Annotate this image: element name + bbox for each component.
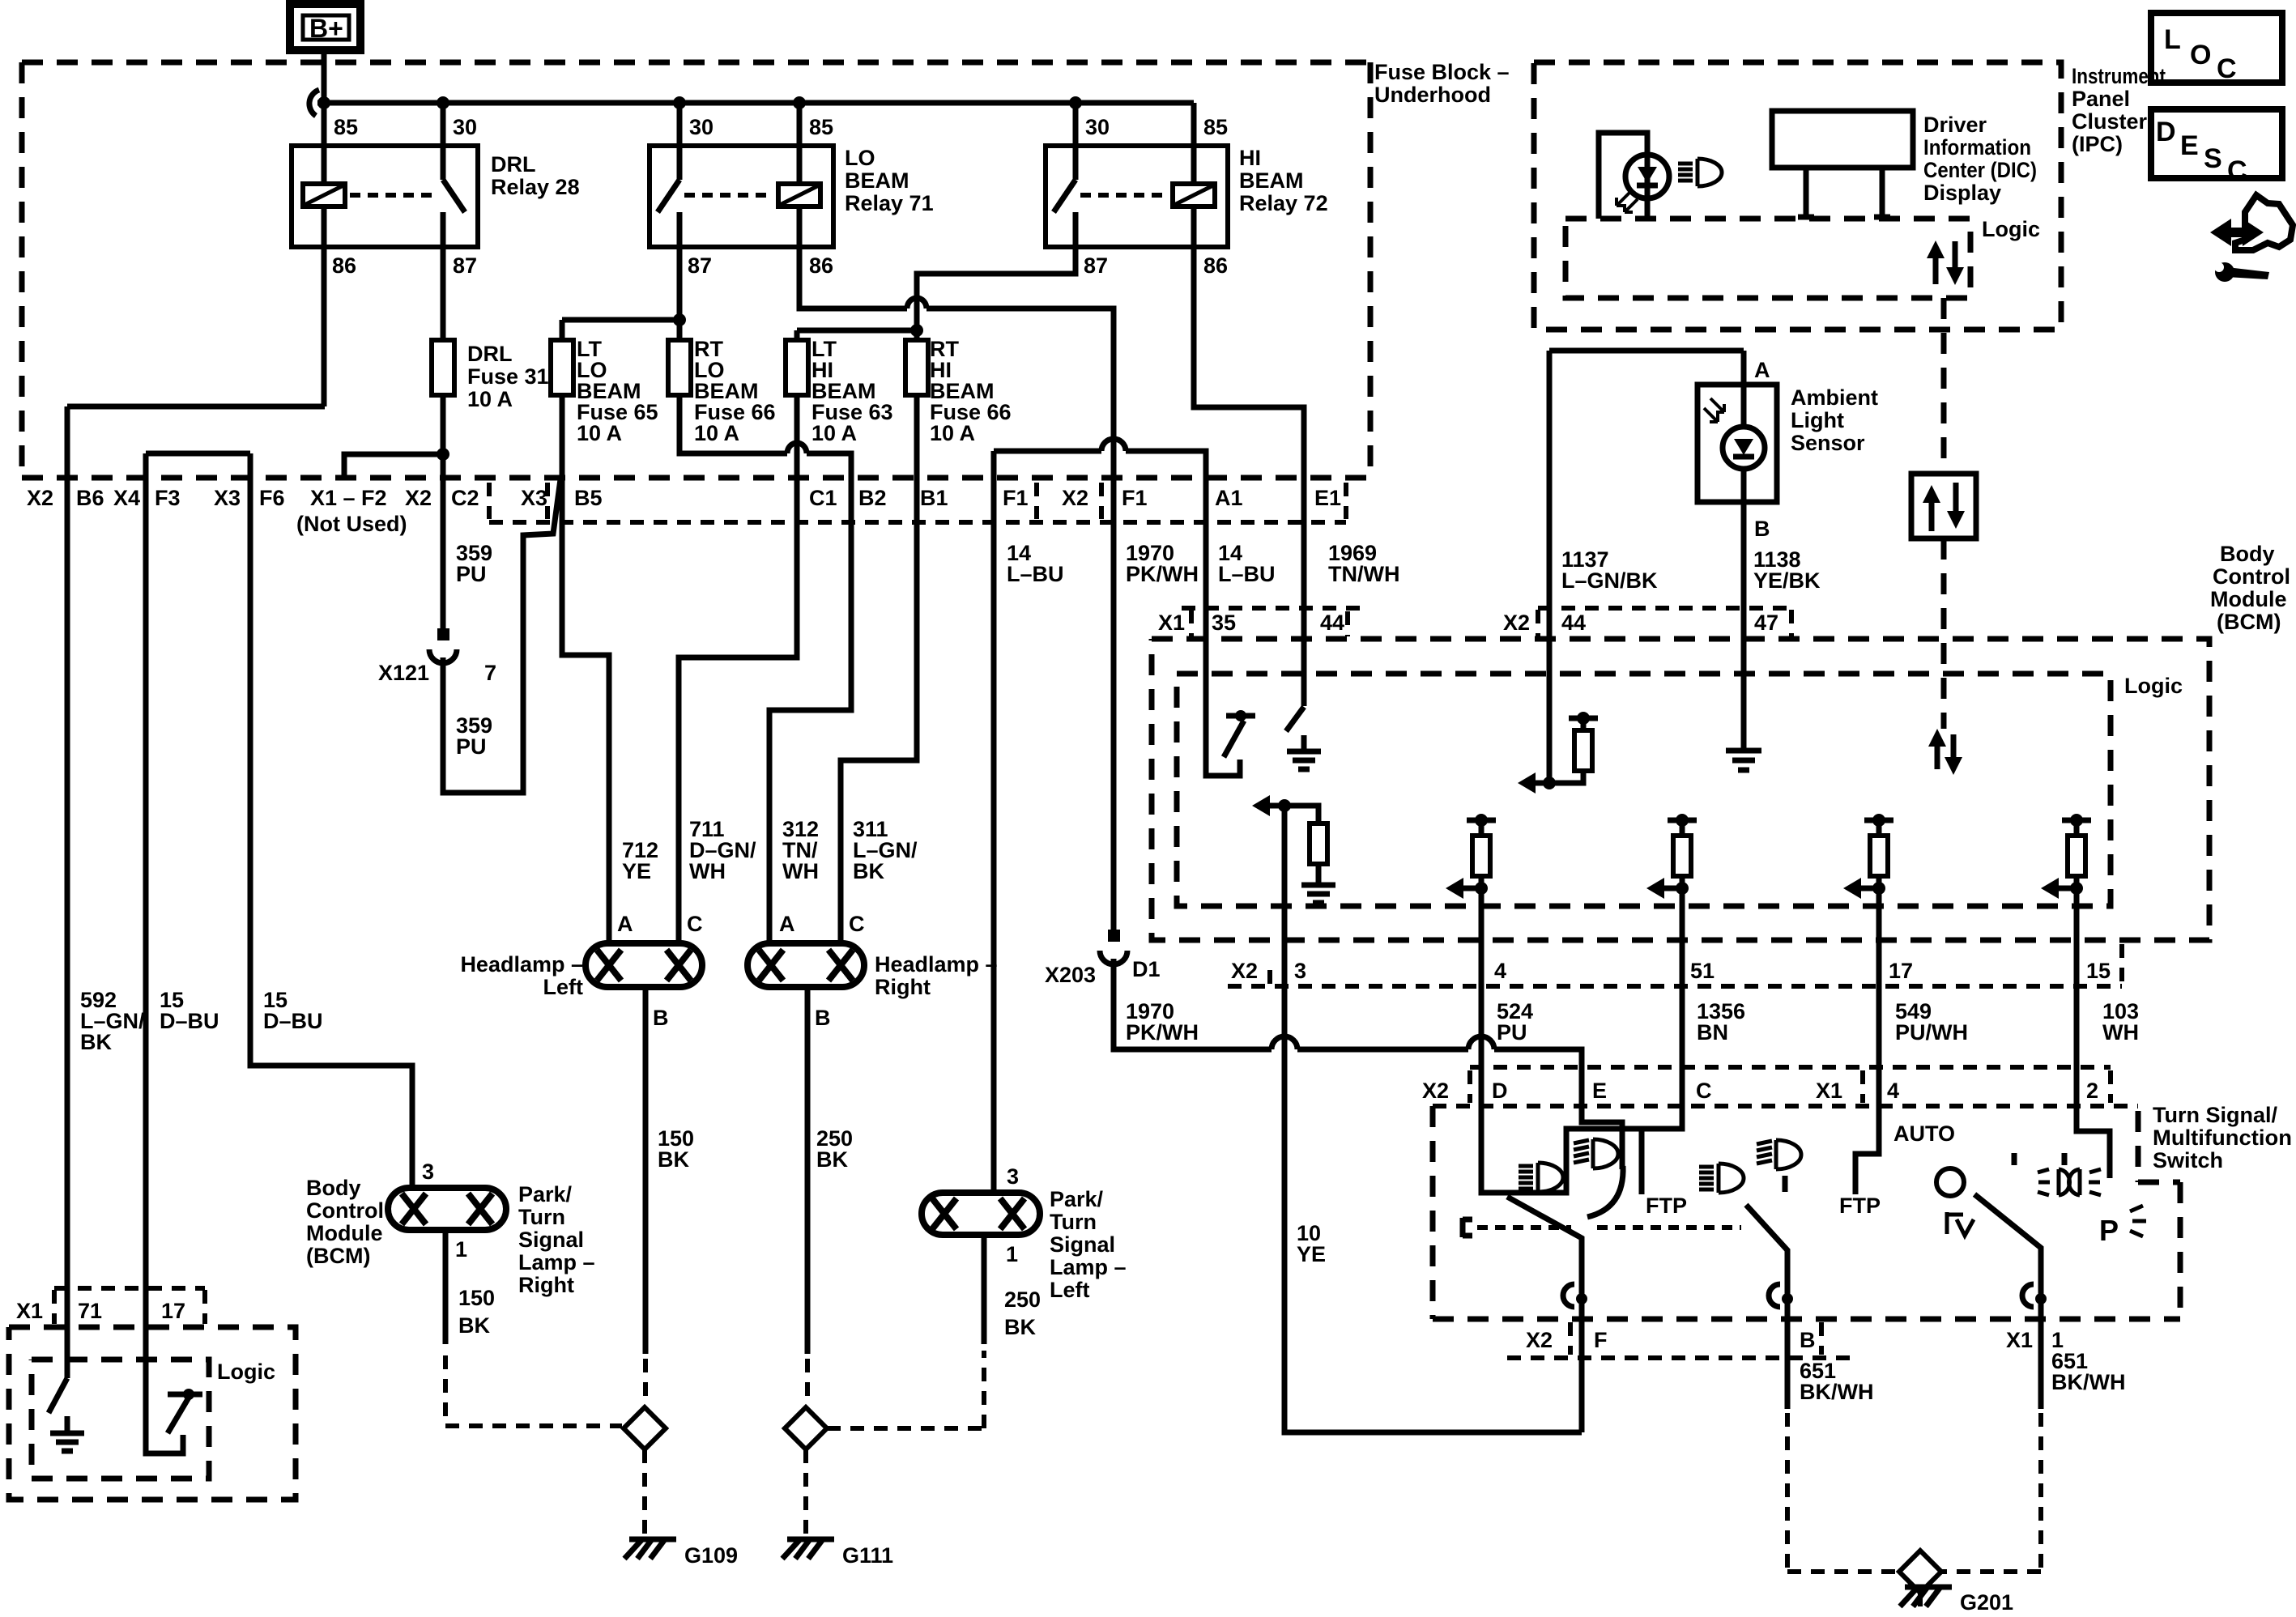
svg-text:A: A (1754, 358, 1770, 382)
svg-text:(BCM): (BCM) (306, 1244, 370, 1268)
svg-text:WH: WH (689, 859, 726, 883)
svg-text:X1: X1 (2006, 1328, 2033, 1352)
svg-text:Control: Control (306, 1198, 384, 1223)
svg-text:Body: Body (306, 1176, 361, 1200)
svg-text:F3: F3 (155, 486, 181, 510)
svg-text:17: 17 (1889, 959, 1913, 983)
svg-text:4: 4 (1887, 1079, 1899, 1103)
svg-text:Turn Signal/: Turn Signal/ (2153, 1103, 2277, 1127)
svg-text:F1: F1 (1122, 486, 1148, 510)
svg-text:B2: B2 (858, 486, 887, 510)
svg-text:X121: X121 (378, 661, 429, 685)
svg-text:Park/: Park/ (1050, 1187, 1104, 1211)
svg-text:X2: X2 (1422, 1079, 1449, 1103)
svg-text:B1: B1 (920, 486, 948, 510)
svg-text:Underhood: Underhood (1374, 83, 1491, 107)
svg-text:Body: Body (2220, 542, 2275, 566)
svg-text:3: 3 (422, 1160, 434, 1184)
svg-text:X3: X3 (214, 486, 241, 510)
svg-text:E: E (2180, 130, 2199, 161)
svg-text:Signal: Signal (518, 1228, 584, 1252)
svg-text:Right: Right (875, 975, 931, 999)
svg-text:Headlamp –: Headlamp – (875, 952, 998, 977)
svg-text:(BCM): (BCM) (2217, 610, 2281, 634)
svg-text:Module: Module (306, 1221, 383, 1245)
svg-text:BK: BK (458, 1313, 490, 1338)
svg-text:10 A: 10 A (577, 421, 622, 445)
svg-text:D: D (1492, 1079, 1508, 1103)
svg-text:Fuse Block –: Fuse Block – (1374, 60, 1510, 84)
svg-text:A1: A1 (1215, 486, 1243, 510)
svg-text:10 A: 10 A (811, 421, 857, 445)
svg-text:C1: C1 (809, 486, 837, 510)
svg-text:BEAM: BEAM (1239, 168, 1304, 193)
svg-text:Lamp –: Lamp – (1050, 1255, 1127, 1279)
svg-text:71: 71 (78, 1299, 102, 1323)
svg-text:D: D (2156, 117, 2176, 147)
svg-text:1: 1 (1006, 1242, 1018, 1266)
svg-text:(Not Used): (Not Used) (296, 512, 407, 536)
svg-text:X2: X2 (1503, 611, 1530, 635)
svg-text:Right: Right (518, 1273, 574, 1297)
svg-text:10 A: 10 A (694, 421, 739, 445)
svg-text:YE/BK: YE/BK (1753, 568, 1821, 593)
svg-text:4: 4 (1494, 959, 1506, 983)
svg-text:P: P (2099, 1214, 2119, 1247)
svg-text:3: 3 (1294, 959, 1306, 983)
svg-text:85: 85 (334, 115, 358, 139)
svg-text:A: A (779, 912, 795, 936)
svg-text:G111: G111 (842, 1543, 893, 1568)
svg-text:35: 35 (1212, 611, 1236, 635)
svg-text:47: 47 (1754, 611, 1778, 635)
svg-text:PK/WH: PK/WH (1126, 1020, 1199, 1045)
svg-text:YE: YE (1297, 1242, 1326, 1266)
svg-text:TN/WH: TN/WH (1328, 562, 1399, 586)
svg-text:85: 85 (809, 115, 833, 139)
svg-text:FTP: FTP (1646, 1194, 1687, 1218)
svg-text:D1: D1 (1132, 957, 1161, 981)
svg-text:LO: LO (845, 146, 875, 170)
svg-text:Sensor: Sensor (1791, 431, 1865, 455)
svg-text:(IPC): (IPC) (2072, 132, 2123, 156)
svg-text:X203: X203 (1045, 963, 1096, 987)
svg-text:Logic: Logic (217, 1360, 275, 1384)
svg-text:Multifunction: Multifunction (2153, 1126, 2292, 1150)
svg-text:A: A (617, 912, 633, 936)
svg-text:Signal: Signal (1050, 1232, 1115, 1257)
svg-text:2: 2 (2086, 1079, 2098, 1103)
svg-text:D–BU: D–BU (160, 1009, 219, 1033)
svg-text:DRL: DRL (491, 152, 536, 177)
svg-text:17: 17 (161, 1299, 185, 1323)
svg-text:WH: WH (2102, 1020, 2139, 1045)
svg-text:C: C (2227, 155, 2247, 186)
svg-text:BK: BK (80, 1030, 112, 1054)
svg-text:Control: Control (2213, 564, 2290, 589)
svg-text:F1: F1 (1003, 486, 1029, 510)
svg-text:BN: BN (1697, 1020, 1728, 1045)
svg-text:Park/: Park/ (518, 1182, 573, 1206)
svg-text:C: C (849, 912, 865, 936)
svg-text:L–BU: L–BU (1218, 562, 1276, 586)
svg-text:L–GN/BK: L–GN/BK (1561, 568, 1658, 593)
svg-text:Relay 72: Relay 72 (1239, 191, 1328, 215)
svg-text:O: O (2190, 40, 2211, 70)
svg-text:Left: Left (543, 975, 584, 999)
svg-text:BEAM: BEAM (845, 168, 909, 193)
svg-text:Logic: Logic (2124, 674, 2183, 698)
svg-text:X3: X3 (521, 486, 547, 510)
svg-text:G201: G201 (1960, 1590, 2013, 1615)
svg-text:PU/WH: PU/WH (1895, 1020, 1968, 1045)
svg-text:Center (DIC): Center (DIC) (1923, 158, 2037, 182)
svg-text:X1: X1 (1158, 611, 1185, 635)
svg-text:X4: X4 (113, 486, 140, 510)
svg-text:Display: Display (1923, 181, 2001, 205)
svg-text:250: 250 (1004, 1287, 1041, 1312)
svg-text:C: C (1696, 1079, 1712, 1103)
svg-text:44: 44 (1561, 611, 1586, 635)
svg-text:51: 51 (1690, 959, 1715, 983)
svg-text:Relay 28: Relay 28 (491, 175, 580, 199)
svg-text:87: 87 (688, 253, 712, 278)
svg-text:E: E (1592, 1079, 1607, 1103)
svg-text:PU: PU (1497, 1020, 1527, 1045)
svg-text:C: C (687, 912, 703, 936)
svg-text:7: 7 (484, 661, 496, 685)
svg-text:X2: X2 (405, 486, 432, 510)
svg-text:X2: X2 (1231, 959, 1258, 983)
svg-text:G109: G109 (684, 1543, 738, 1568)
svg-text:Ambient: Ambient (1791, 385, 1878, 410)
svg-text:HI: HI (1239, 146, 1261, 170)
svg-text:BK/WH: BK/WH (1800, 1380, 1873, 1404)
svg-text:Information: Information (1923, 135, 2031, 160)
svg-text:85: 85 (1203, 115, 1228, 139)
svg-text:Logic: Logic (1982, 217, 2040, 241)
svg-text:15: 15 (2086, 959, 2111, 983)
svg-text:87: 87 (1084, 253, 1108, 278)
svg-text:30: 30 (453, 115, 477, 139)
svg-text:B6: B6 (76, 486, 104, 510)
svg-text:D–BU: D–BU (263, 1009, 323, 1033)
svg-text:X1 – F2: X1 – F2 (310, 486, 387, 510)
svg-text:Panel: Panel (2072, 87, 2130, 111)
svg-text:PK/WH: PK/WH (1126, 562, 1199, 586)
svg-text:DRL: DRL (467, 342, 513, 366)
svg-text:Turn: Turn (1050, 1210, 1097, 1234)
svg-text:3: 3 (1007, 1164, 1019, 1189)
svg-text:YE: YE (622, 859, 651, 883)
svg-text:B+: B+ (309, 14, 343, 43)
svg-text:86: 86 (332, 253, 356, 278)
svg-text:X2: X2 (27, 486, 53, 510)
svg-text:Lamp –: Lamp – (518, 1250, 595, 1274)
svg-text:30: 30 (689, 115, 714, 139)
svg-text:PU: PU (456, 734, 487, 759)
svg-text:F: F (1594, 1328, 1608, 1352)
svg-text:X2: X2 (1062, 486, 1088, 510)
svg-text:87: 87 (453, 253, 477, 278)
svg-text:B: B (653, 1006, 669, 1030)
svg-text:X1: X1 (16, 1299, 43, 1323)
svg-text:86: 86 (809, 253, 833, 278)
svg-text:1: 1 (455, 1237, 467, 1262)
svg-text:BK: BK (853, 859, 884, 883)
svg-text:10 A: 10 A (930, 421, 975, 445)
svg-text:AUTO: AUTO (1893, 1121, 1955, 1146)
svg-text:Turn: Turn (518, 1205, 565, 1229)
svg-text:86: 86 (1203, 253, 1228, 278)
svg-text:X2: X2 (1526, 1328, 1553, 1352)
svg-text:10 A: 10 A (467, 387, 513, 411)
svg-text:BK: BK (816, 1147, 848, 1172)
svg-text:S: S (2204, 143, 2222, 174)
svg-text:44: 44 (1320, 611, 1344, 635)
svg-text:B: B (815, 1006, 831, 1030)
svg-text:L–BU: L–BU (1007, 562, 1064, 586)
svg-text:B: B (1800, 1328, 1816, 1352)
svg-text:Cluster: Cluster (2072, 109, 2148, 134)
svg-text:Relay 71: Relay 71 (845, 191, 934, 215)
svg-text:B5: B5 (574, 486, 603, 510)
svg-text:30: 30 (1085, 115, 1110, 139)
svg-text:B: B (1754, 517, 1770, 541)
svg-text:PU: PU (456, 562, 487, 586)
svg-text:BK: BK (658, 1147, 689, 1172)
svg-text:Headlamp –: Headlamp – (460, 952, 583, 977)
svg-text:BK: BK (1004, 1315, 1036, 1339)
svg-text:FTP: FTP (1839, 1194, 1881, 1218)
svg-text:C: C (2217, 53, 2237, 84)
svg-text:150: 150 (458, 1286, 495, 1310)
svg-text:Driver: Driver (1923, 113, 1987, 137)
svg-text:Switch: Switch (2153, 1148, 2223, 1172)
svg-text:Light: Light (1791, 408, 1844, 432)
svg-text:WH: WH (782, 859, 819, 883)
svg-text:E1: E1 (1314, 486, 1341, 510)
svg-text:C2: C2 (451, 486, 479, 510)
svg-text:Left: Left (1050, 1278, 1090, 1302)
svg-text:F6: F6 (259, 486, 285, 510)
svg-text:Module: Module (2210, 587, 2287, 611)
svg-text:L: L (2164, 24, 2181, 55)
svg-text:X1: X1 (1816, 1079, 1842, 1103)
svg-text:BK/WH: BK/WH (2051, 1370, 2125, 1394)
svg-text:Fuse 31: Fuse 31 (467, 364, 549, 389)
